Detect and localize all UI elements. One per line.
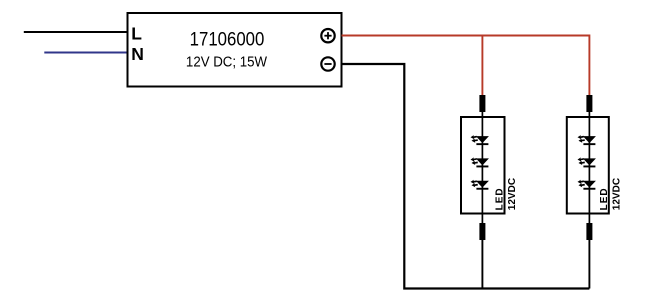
svg-text:LED: LED bbox=[495, 187, 506, 210]
connector plug J4 (module 2 bottom) bbox=[586, 223, 592, 240]
connector plug J3 (module 2 top) bbox=[586, 95, 592, 112]
LED D3 (module 1) bbox=[471, 180, 489, 190]
svg-text:L: L bbox=[131, 24, 142, 44]
wire +12V branch to LED module 1 (red drop) bbox=[481, 36, 483, 96]
LED D2 (module 1) bbox=[471, 157, 489, 167]
svg-text:N: N bbox=[131, 44, 144, 64]
terminal + (plus output) bbox=[321, 29, 334, 42]
wire N (mains neutral lead, blue) bbox=[44, 52, 127, 54]
LED module M1 box bbox=[461, 117, 505, 214]
wire J2 to return bus bbox=[481, 240, 483, 289]
connector plug J1 (module 1 top) bbox=[479, 95, 485, 112]
wire J3 to module 2 bbox=[588, 112, 590, 118]
LED driver U1 (power supply box) bbox=[128, 13, 342, 87]
svg-text:12V DC; 15W: 12V DC; 15W bbox=[186, 54, 268, 71]
svg-text:12VDC: 12VDC bbox=[611, 178, 622, 210]
wire module 2 to J4 bbox=[588, 214, 590, 224]
wire module 1 to J2 bbox=[481, 214, 483, 224]
wire +12V bus (red, from + terminal to LED module 2) bbox=[342, 36, 590, 96]
wire J1 to module 1 bbox=[481, 112, 483, 118]
svg-text:17106000: 17106000 bbox=[190, 29, 265, 50]
LED D4 (module 2) bbox=[578, 135, 596, 145]
LED D6 (module 2) bbox=[578, 180, 596, 190]
wire J4 to return bus bbox=[588, 240, 590, 289]
wire L (mains live lead) bbox=[24, 31, 128, 33]
LED D5 (module 2) bbox=[578, 157, 596, 167]
connector plug J2 (module 1 bottom) bbox=[479, 223, 485, 240]
wire module M2 internal rail bbox=[588, 117, 590, 214]
LED module M2 box bbox=[567, 117, 609, 214]
svg-text:12VDC: 12VDC bbox=[507, 178, 518, 210]
wire 0V return (from - terminal down and along bottom) bbox=[342, 64, 590, 289]
LED D1 (module 1) bbox=[471, 135, 489, 145]
svg-text:LED: LED bbox=[599, 187, 610, 210]
terminal - (minus output) bbox=[321, 57, 334, 70]
wire module M1 internal rail bbox=[481, 117, 483, 214]
